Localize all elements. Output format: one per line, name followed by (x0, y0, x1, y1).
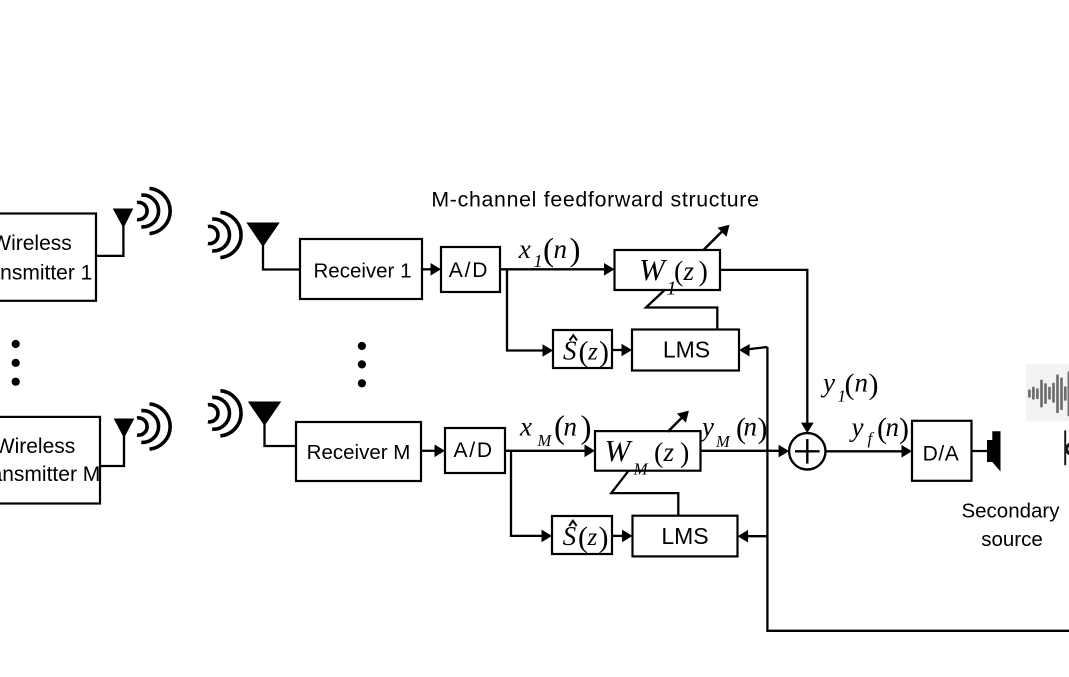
svg-text:D/A: D/A (923, 442, 960, 465)
wire A/D1 to W1 (500, 263, 615, 276)
wire W1 output to summer (720, 270, 814, 433)
svg-text:LMS: LMS (661, 523, 708, 549)
svg-text:Secondary: Secondary (961, 499, 1060, 522)
box Receiver 1 (300, 239, 422, 299)
svg-text:Receiver 1: Receiver 1 (314, 260, 412, 283)
svg-text:source: source (981, 528, 1043, 551)
wire S1 to LMS1 (612, 344, 632, 357)
wire SM to LMSM (612, 530, 633, 543)
box D/A (912, 421, 972, 481)
antenna TXM (100, 419, 134, 466)
svg-text:A/D: A/D (449, 259, 489, 282)
wire summer to D/A (826, 445, 913, 458)
svg-text:Receiver M: Receiver M (307, 441, 411, 464)
wire A/DM to WM (505, 445, 595, 458)
summer (789, 433, 825, 469)
tx waves TX1 (137, 188, 170, 233)
speaker secondary source (987, 431, 1001, 471)
wire WM to LMSM zigzag (611, 471, 678, 516)
tx waves TXM (137, 404, 170, 449)
svg-text:transmitter 1: transmitter 1 (0, 262, 92, 285)
wire Receiver M to A/D (421, 445, 445, 458)
wire feedback to LMSM (738, 530, 768, 543)
wire error feedback (767, 347, 1069, 631)
box Receiver M (296, 422, 421, 481)
svg-text:Wireless: Wireless (0, 232, 72, 255)
wire feedback to LMS1 (739, 344, 767, 357)
ellipsis middle (358, 342, 366, 388)
box A/D lower (445, 428, 505, 473)
wire A/D1 branch to S1 (507, 269, 553, 357)
error microphone partial (1065, 430, 1069, 465)
svg-text:A/D: A/D (453, 439, 493, 462)
svg-text:M-channel feedforward structur: M-channel feedforward structure (431, 187, 759, 211)
arrow W1 adaptive (704, 225, 730, 250)
waveform icon (1026, 364, 1069, 421)
box Wireless transmitter 1 (0, 214, 96, 301)
wire Receiver1 to A/D (422, 263, 441, 276)
rx waves RXM (208, 391, 241, 436)
wire A/DM branch to SM (511, 451, 552, 542)
rx waves RX1 (208, 212, 241, 257)
antenna RXM (249, 402, 296, 446)
box S1 Shat(z) (553, 330, 612, 369)
antenna TX1 (96, 209, 133, 256)
arrow WM adaptive (668, 411, 689, 432)
wire WM output to summer (701, 445, 790, 458)
label Secondary source (961, 499, 1060, 550)
box LMS1 (632, 330, 739, 371)
svg-text:LMS: LMS (663, 337, 710, 363)
box SM Shat(z) (552, 516, 612, 554)
wire D/A to speaker (972, 450, 989, 452)
box Wireless transmitter M (0, 417, 100, 504)
ellipsis left (12, 340, 20, 386)
box A/D upper (441, 247, 500, 292)
box LMSM (633, 516, 738, 557)
box WM (595, 431, 701, 478)
svg-text:Wireless: Wireless (0, 435, 75, 458)
box W1 (615, 250, 721, 300)
wire W1 to LMS1 zigzag (646, 290, 717, 329)
antenna RX1 (247, 223, 300, 270)
svg-text:transmitter M: transmitter M (0, 463, 100, 486)
